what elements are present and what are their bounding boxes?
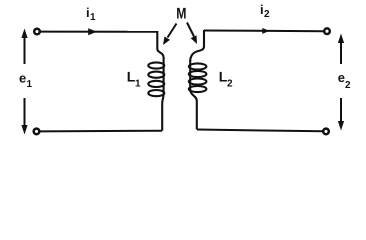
M arrow right: [187, 23, 197, 45]
wire top-right: [204, 30, 324, 33]
M arrow left: [163, 24, 177, 46]
terminal top-left: [34, 29, 40, 35]
voltage arrow e1 up: [21, 29, 27, 65]
svg-text:2: 2: [227, 79, 233, 90]
voltage arrow e1 down: [21, 98, 27, 135]
wire top-left: [40, 31, 157, 33]
terminal bottom-right: [323, 129, 329, 135]
svg-text:1: 1: [27, 79, 33, 90]
wire bottom-right: [197, 130, 323, 132]
wire bottom-left: [40, 130, 162, 133]
svg-text:1: 1: [135, 79, 141, 90]
svg-text:2: 2: [264, 9, 270, 20]
svg-text:1: 1: [90, 12, 96, 23]
voltage arrow e2 up: [338, 34, 344, 65]
terminal bottom-left: [34, 129, 40, 135]
svg-text:e: e: [338, 70, 345, 85]
svg-text:2: 2: [345, 80, 351, 91]
voltage arrow e2 down: [338, 98, 344, 131]
current arrow i1: [88, 28, 97, 35]
current arrow i2: [262, 28, 269, 34]
inductor L1: [148, 31, 164, 131]
inductor L2: [189, 30, 207, 130]
terminal top-right: [324, 28, 330, 34]
svg-text:M: M: [176, 6, 186, 23]
svg-text:e: e: [19, 70, 26, 85]
